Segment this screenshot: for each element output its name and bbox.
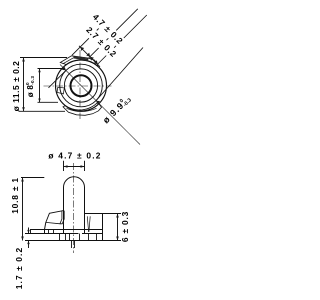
svg-text:ø 4.7 ± 0.2: ø 4.7 ± 0.2 [48,151,101,161]
svg-text:10.8 ± 1: 10.8 ± 1 [10,177,20,214]
svg-text:ø 11.5 ± 0.2: ø 11.5 ± 0.2 [11,61,21,112]
svg-text:6 ± 0.3: 6 ± 0.3 [120,211,130,242]
svg-text:1.7 ± 0.2: 1.7 ± 0.2 [14,247,24,289]
